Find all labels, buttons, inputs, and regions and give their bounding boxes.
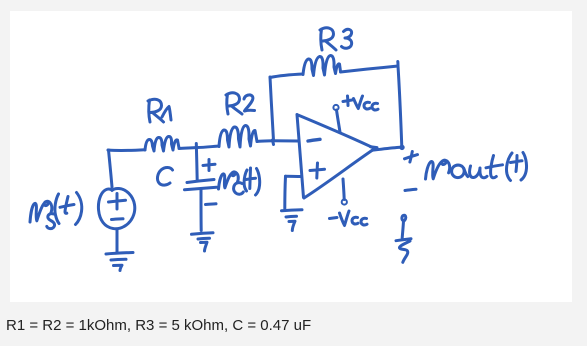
wire: node A to R2 <box>197 146 219 148</box>
label R3 <box>320 28 336 50</box>
junction node B tail <box>273 140 274 145</box>
resistor R3 <box>303 56 341 76</box>
label +Vcc <box>343 96 352 106</box>
wire: node B to op-amp inverting input <box>273 139 298 142</box>
label - (output polarity) <box>405 189 416 190</box>
wire: op-amp output to node C <box>371 147 401 150</box>
op-amp inverting input dash <box>308 139 320 141</box>
capacitor plus <box>203 160 215 171</box>
op-amp U1 triangle <box>297 115 373 199</box>
wire: non-inverting ground vertical <box>283 176 287 208</box>
label vout(t) <box>426 160 450 179</box>
wire: capacitor bottom to ground <box>200 190 203 231</box>
resistor R1 <box>145 136 179 151</box>
label R2 <box>226 93 242 114</box>
wire: node A down to capacitor <box>195 144 199 181</box>
source VS circle <box>98 188 134 228</box>
wire: input node from source top to R1 <box>108 148 145 152</box>
source VS minus <box>112 217 124 221</box>
label R1 <box>148 99 164 122</box>
wire: source bottom to ground <box>116 230 119 252</box>
wire: feedback left vertical <box>270 77 274 141</box>
op-amp non-inverting input plus <box>310 163 325 178</box>
label vs(t) <box>30 201 52 222</box>
junction node C (output) <box>399 145 404 150</box>
source VS plus <box>109 194 126 210</box>
resistor R2 <box>219 126 257 148</box>
label + (output polarity) <box>405 152 418 163</box>
output reference squiggle <box>396 221 411 262</box>
label vc(t) <box>219 172 239 189</box>
capacitor C top plate <box>187 180 214 183</box>
wire: feedback right vertical down to output node <box>398 62 402 148</box>
ground (op-amp + input) <box>282 210 303 231</box>
wire: -Vcc lead <box>343 179 344 200</box>
ground (source) <box>106 253 133 271</box>
wire: +Vcc lead <box>337 110 341 132</box>
label C <box>157 167 172 185</box>
wire: R2 to node B (inverting input net) <box>257 139 273 143</box>
terminal -Vcc circle <box>342 199 347 204</box>
capacitor minus <box>206 202 217 206</box>
wire: source vertical drop <box>109 150 113 187</box>
label -Vcc <box>330 218 338 219</box>
ground (capacitor) <box>192 233 214 251</box>
capacitor C bottom plate <box>185 187 217 190</box>
wire: R1 to junction node A <box>179 148 197 149</box>
wire: R3 to feedback right corner <box>341 66 399 72</box>
wire: feedback top left horizontal to R3 <box>270 74 303 78</box>
wire: non-inverting input to ground (horizontal) <box>286 175 302 178</box>
terminal +Vcc circle <box>333 105 338 110</box>
output reference terminal dot <box>402 215 406 221</box>
